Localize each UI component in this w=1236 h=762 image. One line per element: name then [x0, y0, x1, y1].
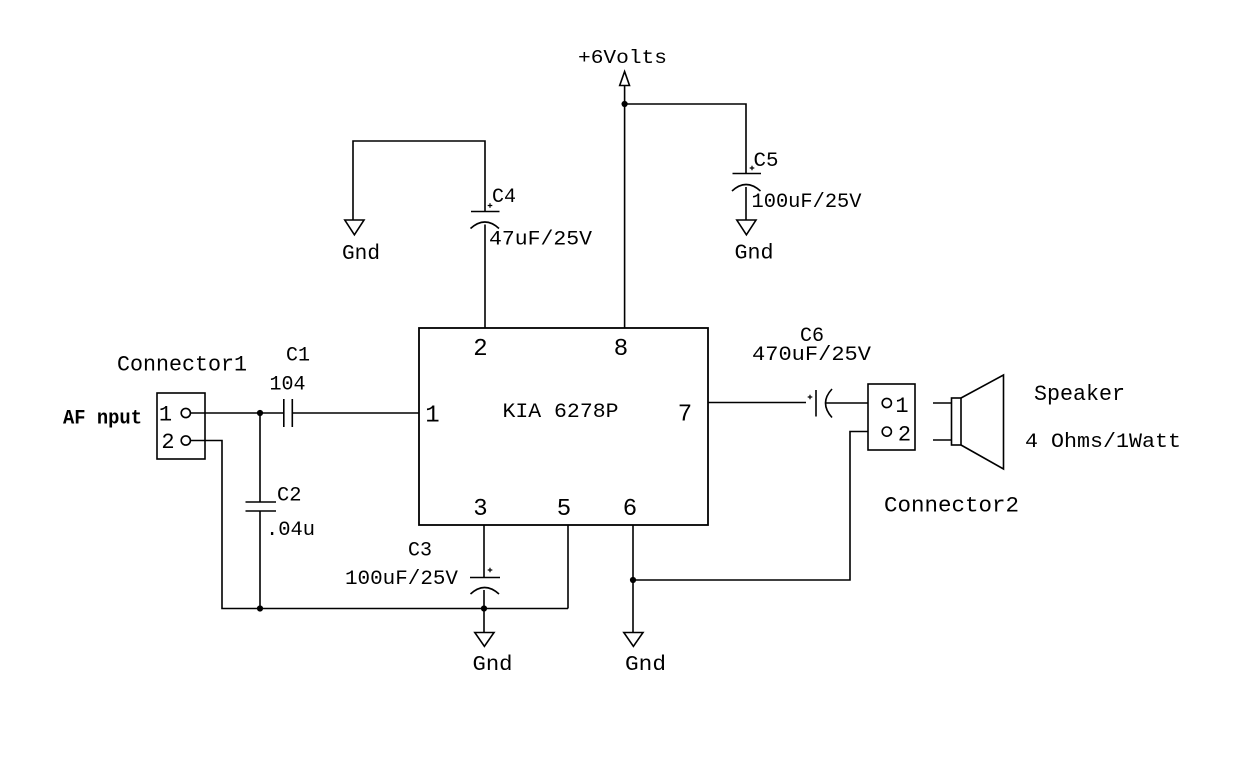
svg-text:5: 5: [557, 496, 571, 523]
ground top-left: [345, 220, 364, 235]
node junction C2 top: [257, 410, 263, 416]
capacitor C1: [284, 399, 293, 427]
svg-text:Connector1: Connector1: [117, 353, 247, 378]
wire +6V to C5: [625, 104, 746, 173]
svg-text:Gnd: Gnd: [625, 653, 666, 677]
svg-text:3: 3: [473, 496, 487, 523]
svg-text:C4: C4: [492, 186, 516, 209]
svg-text:2: 2: [473, 336, 487, 363]
capacitor C4: [471, 203, 500, 328]
power arrow +6Volts: [620, 72, 630, 86]
svg-text:1: 1: [895, 394, 908, 419]
speaker terminal stub bottom: [933, 439, 952, 441]
wire J1 pin1 to C1: [190, 412, 283, 414]
node junction pin6: [630, 577, 636, 583]
svg-text:Gnd: Gnd: [735, 242, 774, 266]
wire pin6 to J2 pin2: [633, 432, 882, 581]
svg-text:1: 1: [425, 403, 439, 430]
svg-text:.04u: .04u: [266, 519, 315, 542]
speaker terminal stub top: [933, 402, 952, 404]
pin 1 circle J1: [181, 408, 190, 417]
ground below C5: [737, 220, 756, 235]
node junction C2 bottom: [257, 605, 263, 611]
svg-text:Gnd: Gnd: [342, 242, 380, 266]
svg-text:1: 1: [159, 403, 172, 428]
capacitor C2: [246, 502, 277, 609]
wire top-left gnd to C4: [353, 141, 485, 220]
svg-text:Connector2: Connector2: [884, 494, 1019, 519]
op-amp U1 KIA 6278P body: [419, 328, 708, 525]
svg-text:AF nput: AF nput: [63, 408, 142, 431]
ground below C3: [475, 633, 494, 647]
svg-text:Gnd: Gnd: [473, 653, 513, 677]
capacitor C6: [808, 389, 868, 418]
wire pin6 vertical to ground: [632, 525, 634, 633]
svg-text:470uF/25V: 470uF/25V: [752, 344, 871, 367]
capacitor C5: [732, 166, 761, 220]
wire C1 to pin1: [292, 412, 419, 414]
svg-text:8: 8: [614, 336, 628, 363]
connector J1 body: [157, 393, 205, 459]
svg-text:C3: C3: [408, 540, 432, 563]
wire junction down to C2: [259, 413, 261, 502]
svg-text:47uF/25V: 47uF/25V: [489, 229, 592, 252]
svg-text:C2: C2: [277, 485, 302, 508]
svg-text:KIA 6278P: KIA 6278P: [503, 401, 619, 424]
ground below pin6: [624, 633, 643, 647]
svg-text:Speaker: Speaker: [1034, 382, 1125, 407]
svg-text:4 Ohms/1Watt: 4 Ohms/1Watt: [1025, 431, 1181, 454]
node junction C3 bottom: [481, 605, 487, 611]
wire pin5 vertical: [567, 525, 569, 609]
pin 2 circle J2: [882, 427, 891, 436]
svg-text:100uF/25V: 100uF/25V: [752, 191, 862, 214]
svg-text:C1: C1: [286, 345, 310, 368]
svg-text:6: 6: [623, 496, 637, 523]
wire pin8 vertical: [624, 86, 626, 329]
pin 1 circle J2: [882, 398, 891, 407]
svg-text:7: 7: [678, 402, 692, 429]
svg-text:2: 2: [161, 430, 174, 455]
svg-text:+6Volts: +6Volts: [578, 47, 667, 69]
svg-text:100uF/25V: 100uF/25V: [345, 568, 458, 591]
connector J2 body: [868, 384, 915, 450]
wire J1 pin2 down to ground bus: [190, 441, 568, 609]
speaker LS1: [952, 375, 1004, 469]
node junction at +6V rail: [622, 101, 628, 107]
capacitor C3: [470, 568, 500, 633]
wire pin3 to C3: [483, 525, 485, 577]
svg-text:104: 104: [270, 374, 306, 397]
pin 2 circle J1: [181, 436, 190, 445]
svg-text:2: 2: [898, 423, 911, 448]
wire pin7 to C6: [708, 402, 806, 404]
svg-text:C5: C5: [754, 150, 779, 173]
